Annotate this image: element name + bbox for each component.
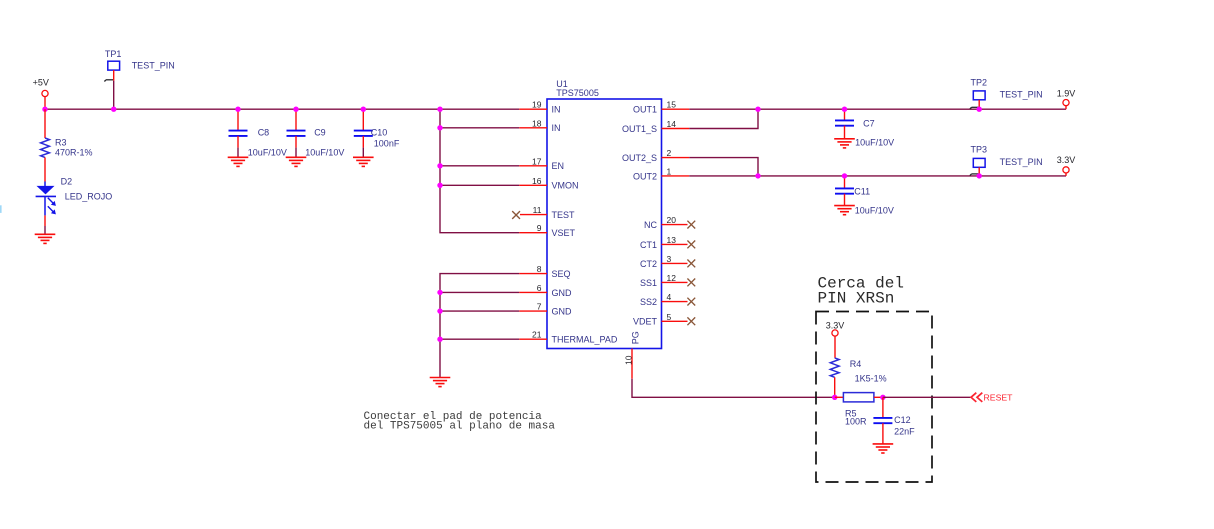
wire main +5V bus xyxy=(45,108,519,110)
node junction C8 xyxy=(235,107,240,112)
svg-text:3.3V: 3.3V xyxy=(1057,155,1076,165)
pin 3 CT2 no-connect xyxy=(640,254,695,269)
svg-text:+5V: +5V xyxy=(33,78,49,88)
pin number 1 of TP3 xyxy=(970,174,979,176)
node junction TP1 xyxy=(111,107,116,112)
node junction pin16 xyxy=(437,183,442,188)
pin 2 OUT2_S xyxy=(622,148,689,163)
svg-text:12: 12 xyxy=(667,273,677,283)
svg-text:TEST: TEST xyxy=(552,210,576,220)
svg-text:IN: IN xyxy=(552,105,561,115)
svg-text:TEST_PIN: TEST_PIN xyxy=(1000,157,1043,167)
svg-text:2: 2 xyxy=(667,148,672,158)
svg-text:OUT2_S: OUT2_S xyxy=(622,153,657,163)
pin 18 IN xyxy=(519,118,560,133)
wire OUT2 net xyxy=(689,175,1066,177)
wire to pin 6 xyxy=(440,291,519,293)
wire to pin 17 xyxy=(440,165,519,167)
ground left trunk xyxy=(430,378,451,387)
node junction C10 xyxy=(361,107,366,112)
svg-text:10uF/10V: 10uF/10V xyxy=(855,137,894,147)
pin 6 GND xyxy=(519,283,572,298)
pin 16 VMON xyxy=(519,176,578,191)
pin 17 EN xyxy=(519,156,564,171)
svg-text:11: 11 xyxy=(533,205,542,215)
svg-text:TP1: TP1 xyxy=(105,49,122,59)
svg-text:15: 15 xyxy=(667,100,677,110)
svg-text:NC: NC xyxy=(644,220,657,230)
svg-text:4: 4 xyxy=(667,292,672,302)
node junction +5V corner xyxy=(42,107,47,112)
pin 5 VDET no-connect xyxy=(633,312,695,327)
node junction TP2 xyxy=(977,107,982,112)
svg-text:100R: 100R xyxy=(845,417,867,427)
svg-text:SS1: SS1 xyxy=(640,278,657,288)
svg-text:470R-1%: 470R-1% xyxy=(55,148,93,158)
svg-text:THERMAL_PAD: THERMAL_PAD xyxy=(552,335,618,345)
svg-text:C8: C8 xyxy=(258,128,270,138)
svg-text:18: 18 xyxy=(532,118,542,128)
pin 21 THERMAL_PAD xyxy=(519,330,618,345)
power port +5V xyxy=(33,78,49,110)
wire to pin 21 xyxy=(440,338,519,340)
svg-text:10: 10 xyxy=(623,355,633,365)
node junction TP3 xyxy=(977,173,982,178)
node junction C11 xyxy=(842,173,847,178)
ground C11 xyxy=(834,206,855,215)
pin 11 TEST no-connect xyxy=(520,205,575,220)
svg-text:SEQ: SEQ xyxy=(552,269,571,279)
resistor R3 xyxy=(41,109,93,181)
svg-text:10uF/10V: 10uF/10V xyxy=(855,206,894,216)
power port 3.3V xyxy=(1057,155,1076,176)
svg-text:VSET: VSET xyxy=(552,228,576,238)
svg-text:R4: R4 xyxy=(850,359,862,369)
node junction pin7 xyxy=(437,308,442,313)
wire to RESET connector xyxy=(883,396,971,398)
svg-text:PIN XRSn: PIN XRSn xyxy=(818,290,895,308)
svg-text:8: 8 xyxy=(537,264,542,274)
pin 12 SS1 no-connect xyxy=(640,273,695,288)
svg-text:5: 5 xyxy=(667,312,672,322)
pin 20 NC no-connect xyxy=(644,215,695,230)
wire OUT1_S loop xyxy=(689,109,758,128)
svg-text:OUT1_S: OUT1_S xyxy=(622,124,657,134)
svg-text:del TPS75005 al plano de masa: del TPS75005 al plano de masa xyxy=(364,421,556,433)
svg-text:C7: C7 xyxy=(863,119,875,129)
svg-text:3.3V: 3.3V xyxy=(826,320,845,330)
resistor R4 xyxy=(830,358,886,397)
svg-text:TP2: TP2 xyxy=(971,77,988,87)
svg-text:20: 20 xyxy=(667,215,677,225)
svg-text:21: 21 xyxy=(532,330,542,340)
svg-text:TPS75005: TPS75005 xyxy=(556,88,599,98)
pin 8 SEQ xyxy=(519,264,570,279)
capacitor C11 xyxy=(835,176,894,216)
capacitor C12 xyxy=(873,397,915,444)
wire to pin 18 xyxy=(440,127,519,129)
svg-text:7: 7 xyxy=(537,302,542,312)
svg-text:100nF: 100nF xyxy=(374,139,400,149)
node junction pin18 xyxy=(437,125,442,130)
pin 4 SS2 no-connect xyxy=(640,292,695,307)
svg-text:OUT1: OUT1 xyxy=(633,105,657,115)
svg-text:19: 19 xyxy=(532,100,542,110)
pin number 1 of TP1 xyxy=(104,80,113,82)
node junction OUT2 loop xyxy=(755,173,760,178)
ground C12 xyxy=(873,444,894,453)
svg-text:14: 14 xyxy=(667,119,677,129)
node junction R4 R5 xyxy=(832,395,837,400)
svg-text:RESET: RESET xyxy=(984,393,1014,403)
resistor R5 xyxy=(835,393,883,427)
svg-text:1.9V: 1.9V xyxy=(1057,88,1076,98)
capacitor C7 xyxy=(835,109,894,147)
svg-text:TEST_PIN: TEST_PIN xyxy=(132,61,175,71)
wire to pin 7 xyxy=(440,310,519,312)
wire PG to RESET net xyxy=(632,379,835,398)
svg-text:CT2: CT2 xyxy=(640,259,657,269)
svg-text:TP3: TP3 xyxy=(971,145,988,155)
node junction pin6 xyxy=(437,290,442,295)
ground D2 xyxy=(35,234,56,243)
svg-text:C10: C10 xyxy=(371,128,388,138)
wire D2 to ground xyxy=(44,215,46,234)
power port 3.3V in box xyxy=(826,320,845,358)
svg-text:VDET: VDET xyxy=(633,317,658,327)
svg-text:LED_ROJO: LED_ROJO xyxy=(65,192,113,202)
off-page connector RESET xyxy=(971,393,1013,403)
svg-text:C11: C11 xyxy=(854,186,870,196)
svg-text:OUT2: OUT2 xyxy=(633,171,657,181)
svg-text:TEST_PIN: TEST_PIN xyxy=(1000,90,1043,100)
pin 19 IN xyxy=(519,100,560,115)
svg-text:C12: C12 xyxy=(894,415,911,425)
note Cerca del PIN XRSn xyxy=(818,275,904,308)
pin 1 OUT2 xyxy=(633,166,689,181)
svg-text:1K5-1%: 1K5-1% xyxy=(855,374,887,384)
node junction trunk top xyxy=(437,107,442,112)
node junction C9 xyxy=(293,107,298,112)
svg-text:13: 13 xyxy=(667,235,677,245)
ground C9 xyxy=(286,157,307,166)
svg-text:SS2: SS2 xyxy=(640,297,657,307)
ground C7 xyxy=(834,139,855,148)
node junction R5 C12 xyxy=(880,395,885,400)
wire TP1 to bus xyxy=(113,81,115,110)
power port 1.9V xyxy=(1057,88,1076,109)
svg-text:9: 9 xyxy=(537,223,542,233)
node junction C7 xyxy=(842,107,847,112)
svg-text:CT1: CT1 xyxy=(640,240,657,250)
capacitor C10 xyxy=(354,109,400,157)
svg-text:10uF/10V: 10uF/10V xyxy=(305,148,344,158)
svg-text:16: 16 xyxy=(532,176,542,186)
svg-text:C9: C9 xyxy=(314,128,326,138)
svg-text:EN: EN xyxy=(552,161,565,171)
svg-text:PG: PG xyxy=(631,331,641,344)
pin 14 OUT1_S xyxy=(622,119,689,134)
pin number 1 of TP2 xyxy=(970,107,979,109)
node junction pin21 xyxy=(437,337,442,342)
clipped symbol at sheet edge xyxy=(0,205,2,213)
pin 13 CT1 no-connect xyxy=(640,235,695,250)
ground C10 xyxy=(353,157,374,166)
pin 10 PG bottom xyxy=(623,331,640,378)
wire OUT2_S loop xyxy=(689,158,758,176)
svg-text:17: 17 xyxy=(532,156,542,166)
LED D2 xyxy=(36,176,113,215)
node junction OUT1 loop xyxy=(755,107,760,112)
svg-text:VMON: VMON xyxy=(552,181,579,191)
svg-text:R3: R3 xyxy=(55,137,67,147)
svg-text:GND: GND xyxy=(552,307,573,317)
capacitor C9 xyxy=(287,109,345,157)
wire OUT1 net xyxy=(689,108,1066,110)
wire left trunk upper xyxy=(440,109,519,233)
pin 7 GND xyxy=(519,302,572,317)
no-connect X on TEST xyxy=(512,211,520,219)
testpoint TP2 xyxy=(971,77,1043,109)
capacitor C8 xyxy=(229,109,287,157)
dashed box Cerca del PIN XRSn xyxy=(816,312,932,483)
svg-text:10uF/10V: 10uF/10V xyxy=(248,148,287,158)
pin 9 VSET xyxy=(519,223,575,238)
wire to pin 16 xyxy=(440,184,519,186)
svg-text:IN: IN xyxy=(552,123,561,133)
testpoint TP1 xyxy=(105,49,175,81)
ground C8 xyxy=(228,157,249,166)
svg-text:3: 3 xyxy=(667,254,672,264)
wire left trunk lower xyxy=(440,274,519,378)
node junction pin17 xyxy=(437,163,442,168)
svg-text:6: 6 xyxy=(537,283,542,293)
pin 15 OUT1 xyxy=(633,100,689,115)
svg-text:D2: D2 xyxy=(61,176,73,186)
svg-text:22nF: 22nF xyxy=(894,426,915,436)
note connect thermal pad xyxy=(364,411,556,433)
svg-text:1: 1 xyxy=(667,166,672,176)
testpoint TP3 xyxy=(971,145,1043,176)
svg-text:GND: GND xyxy=(552,288,573,298)
IC U1 TPS75005 xyxy=(547,79,662,349)
